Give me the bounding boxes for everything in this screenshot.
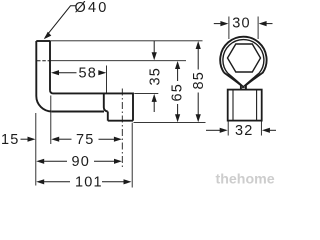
extension lines: [36, 41, 206, 188]
dim 32 tails: [206, 129, 276, 131]
inner bend fillet: [50, 90, 53, 93]
svg-text:90: 90: [72, 154, 91, 170]
clamp inner band (teardrop): [223, 40, 264, 88]
svg-text:30: 30: [232, 16, 251, 32]
hex nut: [228, 44, 261, 72]
svg-text:85: 85: [191, 71, 207, 90]
pipe right edge: [49, 41, 51, 90]
flange bottom joint line: [37, 60, 50, 62]
svg-text:101: 101: [75, 175, 103, 191]
coupling fillet: [104, 108, 108, 112]
ext line flange bottom: [50, 60, 186, 62]
elbow pipe body outline: [36, 41, 133, 121]
ext line 58 right: [106, 66, 108, 94]
clamp inner band neck left: [228, 73, 245, 88]
dim 101 line: [43, 181, 125, 183]
dim 15 line: [21, 138, 30, 140]
clamp base inner line right: [256, 90, 258, 121]
svg-text:32: 32: [235, 123, 254, 139]
ext line part right edge down: [131, 123, 133, 188]
svg-text:Ø40: Ø40: [75, 0, 109, 16]
svg-text:15: 15: [1, 132, 20, 148]
svg-text:58: 58: [79, 66, 98, 82]
dim 30 ext lines: [229, 17, 258, 40]
dim Ø40 leader: [45, 6, 76, 38]
flange top edge: [36, 40, 50, 42]
dim 58 line: [58, 72, 100, 74]
clamp outer band (teardrop): [220, 37, 266, 90]
pipe left edge: [35, 41, 37, 96]
clamp base inner line left: [232, 90, 234, 121]
ext line part left edge: [35, 113, 37, 186]
ext line pipe top right: [134, 92, 158, 94]
svg-text:75: 75: [76, 132, 95, 148]
svg-text:65: 65: [170, 83, 186, 102]
dim 58 arrows: [51, 70, 59, 75]
dim 32 ext lines: [228, 121, 261, 136]
dim 65 line: [177, 68, 179, 116]
pipe top edge: [53, 92, 133, 94]
clamp base block: [228, 90, 262, 121]
pipe bottom edge: [52, 111, 104, 113]
dim 30 tails: [214, 23, 273, 25]
coupling left face: [103, 93, 105, 107]
svg-text:thehome: thehome: [216, 172, 275, 188]
dim 35 stems+arrows (outside): [153, 41, 155, 112]
dim 85 line: [197, 48, 199, 116]
ext line flange top: [50, 40, 203, 42]
coupling centerline (dash-dot): [121, 89, 123, 170]
ext line pipe right edge down: [50, 96, 52, 145]
dim 75 line: [58, 138, 115, 140]
coupling right edge: [132, 93, 134, 121]
svg-text:35: 35: [148, 67, 164, 86]
dim 90 line: [43, 160, 116, 162]
ext line coupling bottom: [134, 122, 206, 124]
coupling bottom edge: [108, 120, 133, 122]
outer bend: [36, 96, 52, 112]
clamp outer band neck left: [224, 73, 241, 90]
coupling lower-left face: [107, 112, 109, 121]
